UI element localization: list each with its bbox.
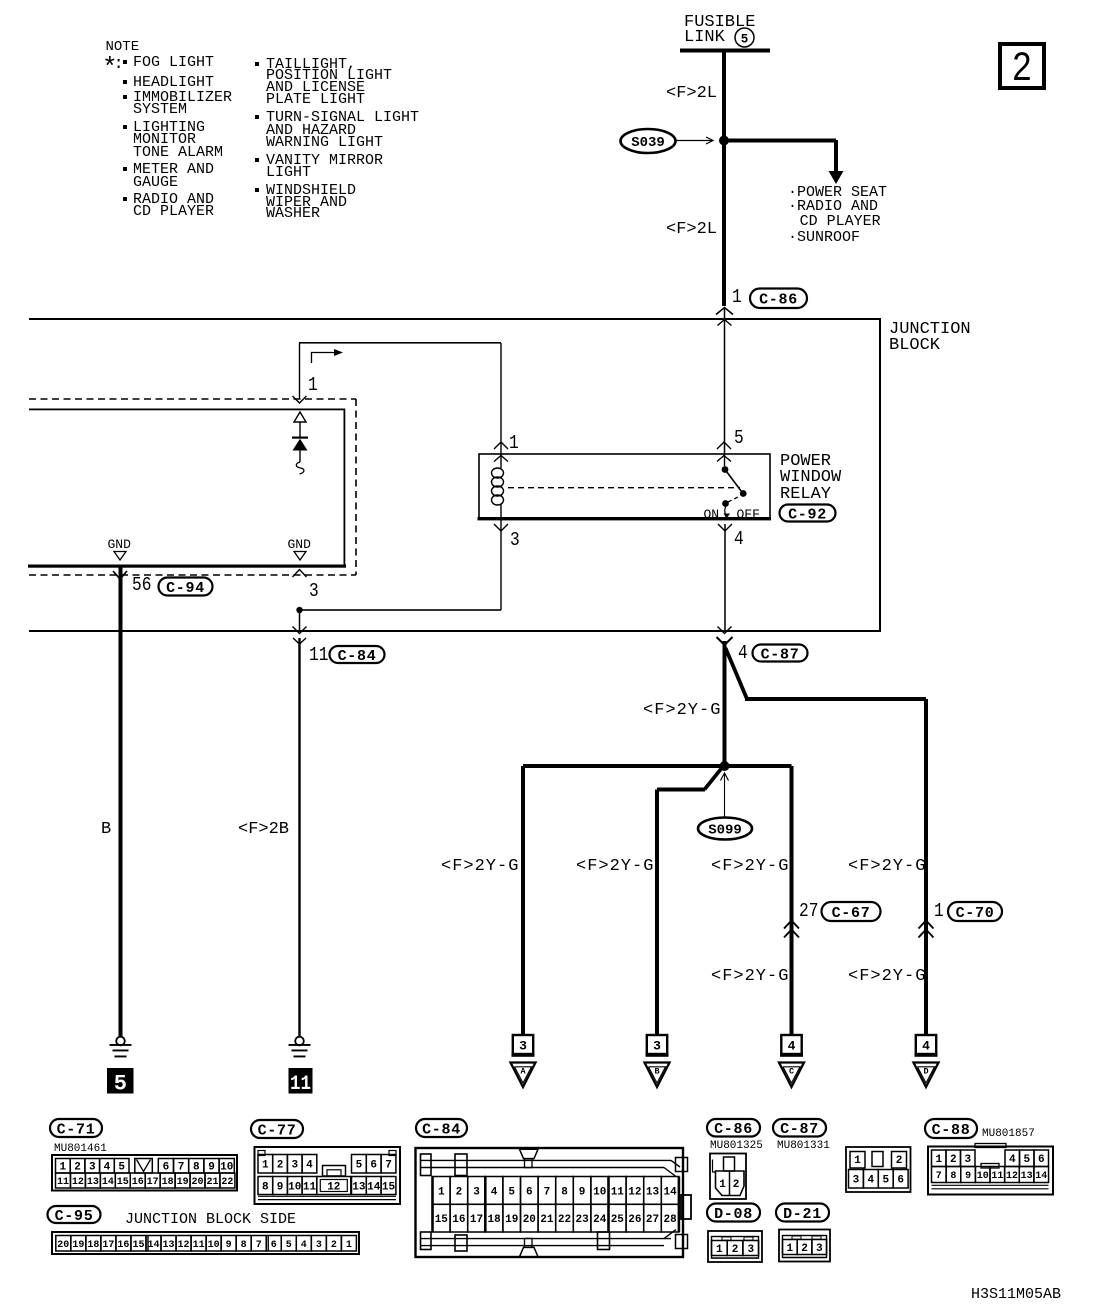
svg-text:2: 2 [456,1186,463,1198]
svg-text:19: 19 [505,1214,518,1226]
svg-text:4: 4 [922,1039,930,1054]
svg-text:5: 5 [1023,1154,1030,1166]
svg-text:C-86: C-86 [759,292,798,309]
svg-text:24: 24 [593,1214,607,1226]
svg-text:5: 5 [286,1240,292,1251]
svg-text:13: 13 [646,1186,660,1198]
svg-text:6: 6 [271,1240,277,1251]
svg-text:4: 4 [301,1240,307,1251]
svg-text:14: 14 [367,1181,381,1193]
svg-text:6: 6 [370,1160,377,1172]
svg-text:2: 2 [74,1162,81,1174]
svg-text:10: 10 [220,1162,233,1174]
svg-text:3: 3 [291,1160,298,1172]
svg-text:3: 3 [316,1240,322,1251]
svg-text:3: 3 [519,1039,527,1054]
svg-text:28: 28 [663,1214,677,1226]
svg-text:8: 8 [950,1171,956,1182]
svg-text:6: 6 [1038,1154,1045,1166]
svg-text:22: 22 [221,1177,233,1188]
svg-text:1: 1 [262,1160,269,1172]
svg-text:16: 16 [117,1240,129,1251]
svg-text:C-70: C-70 [956,905,995,922]
svg-text:15: 15 [382,1181,396,1193]
svg-text:19: 19 [72,1240,84,1251]
svg-text:12: 12 [72,1177,84,1188]
svg-text:S039: S039 [631,135,665,151]
svg-text:12: 12 [1006,1171,1018,1182]
svg-text:A: A [520,1067,526,1077]
svg-text:14: 14 [663,1186,677,1198]
svg-text:C-95: C-95 [55,1208,94,1225]
svg-text:1: 1 [346,1240,352,1251]
svg-text:25: 25 [611,1214,625,1226]
svg-text:18: 18 [487,1214,501,1226]
svg-text:1: 1 [716,1244,723,1256]
svg-text:14: 14 [147,1240,159,1251]
svg-text:7: 7 [256,1240,262,1251]
svg-text:9: 9 [579,1186,586,1198]
svg-text:D: D [923,1067,928,1077]
svg-text:8: 8 [262,1181,269,1193]
svg-text:D-08: D-08 [714,1206,753,1223]
svg-text:19: 19 [177,1177,189,1188]
svg-text:10: 10 [288,1181,301,1193]
svg-text:23: 23 [575,1214,589,1226]
svg-text:18: 18 [87,1240,99,1251]
svg-text:3: 3 [747,1244,754,1256]
svg-text:2: 2 [277,1160,284,1172]
svg-text:C-87: C-87 [780,1121,819,1138]
svg-text:3: 3 [964,1154,971,1166]
svg-text:9: 9 [226,1240,232,1251]
svg-text:2: 2 [896,1155,903,1167]
svg-text:10: 10 [593,1186,606,1198]
svg-text:5: 5 [118,1162,125,1174]
svg-text:20: 20 [523,1214,536,1226]
svg-text:C-84: C-84 [422,1121,461,1138]
svg-text:11: 11 [991,1171,1003,1182]
svg-text:5: 5 [114,1072,127,1097]
svg-text:27: 27 [646,1214,659,1226]
svg-text:2: 2 [331,1240,337,1251]
svg-text:5: 5 [741,33,749,47]
svg-text:5: 5 [508,1186,515,1198]
svg-text:4: 4 [104,1162,111,1174]
svg-text:17: 17 [102,1240,114,1251]
svg-text:21: 21 [540,1214,554,1226]
svg-text:4: 4 [1009,1154,1016,1166]
svg-text:S099: S099 [708,822,742,838]
svg-text:2: 2 [733,1179,740,1191]
svg-text:5: 5 [882,1175,889,1187]
svg-text:9: 9 [965,1171,971,1182]
svg-text:17: 17 [147,1177,159,1188]
svg-text:C-71: C-71 [57,1121,96,1138]
svg-text:2: 2 [950,1154,957,1166]
svg-text:11: 11 [611,1186,625,1198]
svg-text:B: B [654,1067,659,1077]
svg-text:13: 13 [352,1181,366,1193]
svg-text:9: 9 [277,1181,284,1193]
svg-text:20: 20 [192,1177,204,1188]
svg-text:3: 3 [653,1039,661,1054]
svg-text:8: 8 [561,1186,568,1198]
svg-text:12: 12 [327,1182,340,1194]
svg-text:1: 1 [854,1155,861,1167]
svg-text:1: 1 [438,1186,445,1198]
svg-text:12: 12 [178,1240,190,1251]
svg-text:10: 10 [208,1240,220,1251]
svg-text:16: 16 [132,1177,144,1188]
svg-text:3: 3 [89,1162,96,1174]
svg-text:8: 8 [193,1162,200,1174]
svg-text:11: 11 [57,1177,69,1188]
svg-text:D-21: D-21 [783,1206,822,1223]
svg-text:6: 6 [163,1162,170,1174]
svg-text:8: 8 [241,1240,247,1251]
svg-text:7: 7 [178,1162,185,1174]
svg-text:7: 7 [385,1160,392,1172]
svg-text:2: 2 [801,1243,808,1255]
svg-text:1: 1 [60,1162,67,1174]
svg-text:C-92: C-92 [788,506,827,523]
svg-text:4: 4 [306,1160,313,1172]
svg-text:20: 20 [57,1240,69,1251]
svg-text:6: 6 [526,1186,533,1198]
svg-text:7: 7 [544,1186,551,1198]
svg-text:1: 1 [787,1243,794,1255]
svg-text:4: 4 [868,1175,875,1187]
svg-text:3: 3 [816,1243,823,1255]
svg-text:2: 2 [732,1244,739,1256]
svg-text:C-77: C-77 [258,1122,297,1139]
svg-text:C: C [789,1067,794,1077]
svg-text:7: 7 [936,1171,942,1182]
svg-text:C-94: C-94 [166,580,205,597]
svg-text:3: 3 [853,1175,860,1187]
svg-text:12: 12 [628,1186,641,1198]
svg-text:14: 14 [102,1177,114,1188]
svg-text:15: 15 [132,1240,144,1251]
svg-text:3: 3 [473,1186,480,1198]
svg-text:C-86: C-86 [714,1121,753,1138]
svg-text:13: 13 [163,1240,175,1251]
svg-text:C-87: C-87 [761,646,800,663]
svg-text:22: 22 [558,1214,571,1226]
svg-text:15: 15 [435,1214,449,1226]
svg-text:18: 18 [162,1177,174,1188]
svg-text:16: 16 [452,1214,465,1226]
svg-text:11: 11 [193,1240,205,1251]
svg-text:1: 1 [719,1179,726,1191]
svg-text:4: 4 [788,1039,796,1054]
svg-text:14: 14 [1035,1171,1047,1182]
svg-text:6: 6 [897,1175,904,1187]
svg-text:11: 11 [303,1181,317,1193]
svg-text:13: 13 [1021,1171,1033,1182]
svg-text:10: 10 [977,1171,989,1182]
svg-text:1: 1 [935,1154,942,1166]
svg-text:11: 11 [290,1073,311,1096]
svg-text:5: 5 [356,1160,363,1172]
svg-text:9: 9 [208,1162,215,1174]
svg-text:C-67: C-67 [832,905,871,922]
svg-text:C-88: C-88 [932,1122,971,1139]
svg-text:21: 21 [206,1177,218,1188]
svg-text:17: 17 [470,1214,483,1226]
svg-text:15: 15 [117,1177,129,1188]
svg-text:4: 4 [491,1186,498,1198]
svg-text:26: 26 [628,1214,641,1226]
svg-text:C-84: C-84 [338,648,377,665]
svg-text:13: 13 [87,1177,99,1188]
